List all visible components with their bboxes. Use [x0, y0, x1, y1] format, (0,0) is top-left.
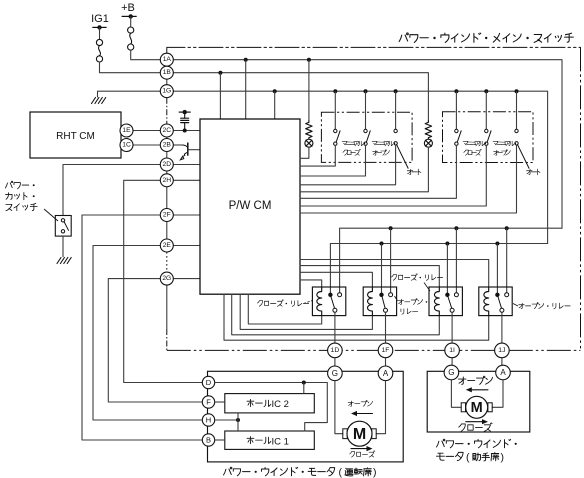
junction 1A-PWCM	[244, 58, 248, 62]
label open relay K4	[519, 303, 525, 308]
junction H	[236, 418, 240, 422]
svg-text:1C: 1C	[122, 142, 131, 149]
sw manual-open 2 lever	[487, 130, 491, 142]
pin 1G	[160, 85, 173, 98]
svg-text:F: F	[206, 398, 211, 407]
boundary 2G to pin row dash	[166, 329, 168, 350]
wire 1G to sw manual-open 2	[485, 91, 487, 129]
wire PWCM to coil1 bottom	[248, 294, 321, 324]
wire PWCM to coil3 bottom	[232, 294, 440, 335]
wire 2G to P/W CM	[173, 278, 200, 280]
wire 2E to P/W CM	[173, 245, 200, 247]
pin B	[202, 434, 214, 446]
ground 1G	[92, 98, 106, 104]
wire sw1-auto ladder	[300, 145, 396, 185]
wire 1G drop to P/W CM	[274, 91, 276, 119]
hall IC 1 box	[225, 431, 314, 449]
label manual close 2	[463, 141, 468, 145]
svg-text:IC 2: IC 2	[272, 399, 289, 410]
wire sw1-close ladder	[300, 145, 335, 166]
close relay K3 lever	[448, 297, 452, 309]
wire 2C to P/W CM	[173, 130, 200, 132]
junction 1G x=365.5	[364, 89, 368, 93]
label manual open 2	[493, 141, 498, 145]
label open direction driver	[348, 401, 353, 406]
pin 1E	[120, 124, 133, 137]
wire NC4 drop	[496, 244, 498, 295]
IG1 terminal tick	[92, 26, 106, 28]
ground power cut switch	[57, 258, 71, 264]
svg-text:1A: 1A	[163, 56, 172, 63]
wire 2H-2F	[166, 187, 168, 209]
close relay K1 common wire to pin	[334, 312, 336, 343]
wire 2E to H	[93, 246, 203, 421]
wire lamp L2 ladder	[300, 147, 428, 192]
arrow open driver	[355, 413, 373, 415]
wire 2F to B	[82, 215, 203, 440]
label hall IC 1	[247, 437, 254, 444]
svg-text:RHT CM: RHT CM	[56, 131, 95, 142]
junction capacitor	[183, 129, 187, 133]
pin D	[202, 376, 214, 388]
open relay K2 common contact	[384, 308, 388, 312]
label auto 1	[407, 169, 413, 174]
P/W CM box	[200, 119, 300, 294]
wire 1G to sw manual-close 1	[334, 91, 336, 129]
wire 2B toward shield	[173, 144, 183, 146]
resistor R2	[425, 121, 431, 139]
pin F	[202, 396, 214, 408]
close relay K3 common wire to pin	[451, 312, 453, 343]
junction D hallIC2	[302, 381, 306, 385]
svg-text:D: D	[206, 378, 212, 387]
svg-text:IC 1: IC 1	[272, 436, 289, 447]
sw manual-close 1 lever	[336, 130, 340, 142]
sw manual-close 1 contacts	[334, 129, 337, 132]
arrow close passenger	[466, 421, 484, 423]
switch group2 boundary box	[443, 112, 534, 163]
wire sw2-open ladder	[300, 145, 486, 206]
pin 1B	[160, 66, 173, 79]
close relay K3 box	[429, 287, 462, 316]
wire 1A to resistor R1	[308, 60, 310, 121]
wire 1E-2C	[133, 130, 160, 132]
boundary below 2G	[166, 285, 168, 329]
wire 2H to D	[124, 180, 203, 382]
label open relay K2	[398, 299, 403, 304]
junction 1G x=274.7	[273, 89, 277, 93]
pin A passenger	[496, 365, 511, 380]
wire 1I to G	[451, 358, 453, 366]
junction NO2	[389, 226, 393, 230]
svg-text:2C: 2C	[163, 127, 172, 134]
wire coil2 feed	[300, 272, 372, 287]
driver motor unit box	[208, 371, 404, 462]
close relay K1 NO contact	[338, 293, 342, 297]
svg-text:1G: 1G	[162, 88, 171, 95]
svg-text:1F: 1F	[382, 347, 390, 354]
wire 1D to G	[334, 358, 336, 366]
svg-text:A: A	[500, 368, 506, 377]
wire IG1 fuse to 1B	[100, 62, 161, 73]
boundary 2E-2G dotted	[166, 252, 168, 272]
+B terminal tick	[122, 15, 137, 17]
wire 1J to A	[501, 358, 503, 366]
wire 1G to sw auto 1	[395, 91, 397, 129]
label power cut switch	[5, 181, 12, 188]
svg-text:M: M	[353, 426, 366, 443]
svg-text:1D: 1D	[331, 347, 340, 354]
pin 2H	[160, 174, 173, 187]
open relay K4 coil	[484, 287, 489, 316]
svg-text:M: M	[471, 400, 483, 416]
wire A to motor	[376, 381, 385, 434]
resistor R1	[306, 121, 312, 139]
wire sw2-auto ladder	[300, 145, 517, 213]
wire A to motor passenger	[492, 380, 503, 408]
open relay K2 NC contact	[379, 293, 383, 297]
close relay K3 common contact	[450, 308, 454, 312]
arrow close driver	[351, 448, 369, 450]
junction 1G x=516.5	[515, 89, 519, 93]
close relay K3 NC contact	[445, 293, 449, 297]
open relay K4 lever	[498, 297, 502, 309]
pin 1I	[445, 343, 460, 358]
wire bus 1A to relay NO contacts	[340, 228, 562, 295]
svg-text:H: H	[206, 416, 211, 425]
wire G to motor	[335, 381, 343, 434]
svg-text:1E: 1E	[122, 127, 131, 134]
wire 2G to F	[108, 279, 202, 402]
power cut switch contacts	[61, 219, 64, 222]
motor M1	[347, 421, 372, 446]
wire NO4 drop	[506, 228, 508, 294]
pin 1C	[120, 139, 133, 152]
pin 1D	[328, 343, 343, 358]
sw manual-close 2 lever	[457, 130, 461, 142]
close relay K3 coil	[434, 287, 439, 316]
svg-text:G: G	[332, 369, 338, 378]
wire D drop to hall IC2	[303, 383, 305, 394]
sw manual-open 1 lever	[366, 130, 370, 142]
wire F to hall IC2	[215, 401, 225, 403]
label close direction driver	[350, 452, 355, 458]
pin 2E	[160, 239, 173, 252]
wire 2B-2D	[166, 152, 168, 159]
wire 1A bus	[173, 60, 562, 229]
wire hallIC2-hallIC1 via H	[237, 413, 239, 431]
wire 2D to power cut switch	[63, 165, 160, 216]
wire H to hall ICs	[215, 419, 238, 421]
label open direction passenger	[458, 377, 466, 384]
wire sw1-open ladder	[300, 145, 366, 176]
svg-text:): )	[501, 451, 505, 463]
label close relay K1	[257, 301, 262, 307]
sw auto 2 lever	[517, 144, 529, 168]
main switch boundary right	[580, 47, 582, 350]
junction 1G x=335.3	[333, 89, 337, 93]
svg-text:A: A	[383, 369, 389, 378]
pin H	[202, 414, 214, 426]
wire lamp L1 to P/W CM	[300, 147, 309, 158]
label manual close 1	[342, 141, 347, 145]
close relay K1 box	[312, 287, 345, 316]
label hall IC 2	[247, 399, 254, 406]
fuse IG1	[96, 39, 102, 45]
wire 1G to sw auto 2	[516, 91, 518, 129]
svg-text:+B: +B	[121, 2, 135, 14]
pin 2C	[160, 124, 173, 137]
junction NC3	[445, 242, 449, 246]
power cut switch box	[55, 216, 71, 237]
sw manual-close 2 contacts	[455, 129, 458, 132]
wire 2H to P/W CM	[173, 179, 200, 181]
wire coil3 feed	[300, 266, 439, 287]
svg-text:2G: 2G	[162, 275, 171, 282]
svg-text:(: (	[339, 466, 343, 478]
svg-text:): )	[373, 466, 377, 478]
wire 2D-2H	[166, 171, 168, 174]
open relay K4 NC contact	[495, 293, 499, 297]
wire 1B bus	[173, 73, 428, 121]
pin 1A	[160, 53, 173, 66]
wire NO2 drop	[390, 228, 392, 295]
svg-text:P/W CM: P/W CM	[229, 200, 272, 212]
capacitor C1	[184, 123, 186, 131]
main switch boundary bottom (through 1D 1F 1I 1J)	[167, 349, 581, 351]
pin G driver	[328, 366, 343, 381]
junction NO4	[505, 226, 509, 230]
label close relay K3	[391, 275, 396, 281]
motor M2 terminals	[461, 403, 465, 412]
sw manual-open 1 contacts	[364, 129, 367, 132]
svg-text:(: (	[466, 451, 470, 463]
svg-text:2E: 2E	[163, 242, 172, 249]
wire PWCM to coil2 bottom	[240, 294, 372, 329]
wire 1G to sw manual-close 2	[455, 91, 457, 129]
sw auto 2 contacts	[515, 129, 518, 132]
label auto 2	[527, 169, 533, 174]
motor M2	[466, 396, 488, 418]
pin 2B	[160, 139, 173, 152]
svg-text:1J: 1J	[498, 347, 505, 354]
pin 1F	[378, 343, 393, 358]
pin G passenger	[444, 365, 459, 380]
wire NC2 drop	[381, 244, 383, 295]
wire +B fuse to 1A	[131, 50, 161, 60]
sw manual-open 2 contacts	[485, 129, 488, 132]
switch group1 boundary box	[321, 112, 412, 162]
label driver motor	[224, 467, 232, 475]
power cut switch lever	[64, 222, 69, 231]
lamp L2	[424, 139, 432, 147]
wire RHT-1C	[120, 144, 121, 146]
wire G to motor passenger	[451, 380, 461, 408]
sw auto 1 lever	[396, 144, 408, 168]
close relay K1 coil	[317, 287, 322, 316]
wire IG1 down to fuse	[99, 27, 101, 39]
wire B to hall IC1	[215, 439, 225, 441]
svg-text:1B: 1B	[163, 69, 172, 76]
junction NO3	[454, 226, 458, 230]
leader power cut switch	[44, 209, 58, 221]
shield symbol at 2B	[183, 145, 188, 148]
pin 2F	[160, 209, 173, 222]
junction 1G x=486.3	[484, 89, 488, 93]
lamp L1	[305, 139, 313, 147]
boundary 1G-2C dash	[166, 98, 168, 124]
svg-text:2B: 2B	[163, 142, 172, 149]
close relay K1 NC contact	[328, 293, 332, 297]
close relay K1 lever	[331, 297, 335, 309]
hall IC 2 box	[225, 394, 314, 413]
main switch boundary top	[167, 47, 581, 53]
pin 1J	[495, 343, 510, 358]
pin 2D	[160, 158, 173, 171]
open relay K2 NO contact	[389, 293, 393, 297]
wire 2D to P/W CM	[173, 164, 200, 166]
RHT CM box	[30, 112, 121, 158]
wire 1F to A	[385, 358, 387, 366]
wire sw2-close ladder	[300, 145, 456, 198]
svg-text:2H: 2H	[163, 177, 172, 184]
wire coil4 feed	[300, 260, 489, 288]
wire 1B drop to P/W CM	[219, 73, 221, 119]
wire 2F-2E	[166, 222, 168, 240]
junction 1G x=395.6	[394, 89, 398, 93]
open relay K2 box	[363, 287, 396, 316]
svg-text:1I: 1I	[449, 347, 455, 354]
open relay K2 common wire to pin	[385, 312, 387, 343]
wire 1G to sw manual-open 1	[365, 91, 367, 129]
open relay K4 NO contact	[505, 293, 509, 297]
close relay K3 NO contact	[454, 293, 458, 297]
wire D to hall ICs	[215, 383, 327, 432]
wire 2F to P/W CM	[173, 214, 200, 216]
wire bus 1G to relay NC contacts	[330, 244, 547, 295]
open relay K4 common wire to pin	[501, 312, 503, 343]
motor M1 terminals	[343, 429, 348, 439]
wire 1G bus	[173, 91, 547, 243]
open relay K2 lever	[382, 297, 385, 309]
svg-text:2F: 2F	[163, 212, 171, 219]
sw auto 1 contacts	[394, 129, 397, 132]
junction 1A-resistor1	[307, 58, 311, 62]
junction 1G x=456.4	[454, 89, 458, 93]
svg-text:IG1: IG1	[91, 13, 109, 25]
wire 2C-2B	[166, 137, 168, 139]
open relay K4 box	[479, 287, 512, 316]
label power window main switch	[399, 33, 408, 42]
label close direction passenger	[459, 424, 465, 431]
wire power cut switch to ground	[62, 236, 64, 257]
svg-text:G: G	[448, 368, 454, 377]
close relay K1 common contact	[333, 308, 337, 312]
label manual open 1	[372, 141, 377, 145]
open relay K2 coil	[368, 287, 373, 316]
wire 1B-1G	[166, 79, 168, 85]
pin 2G	[160, 272, 173, 285]
wire +B down to fuse	[130, 16, 132, 27]
junction NC2	[380, 242, 384, 246]
svg-text:2D: 2D	[163, 161, 172, 168]
wire 1A drop to P/W CM	[245, 60, 247, 119]
fuse +B	[128, 27, 134, 33]
wire NC3 drop	[446, 244, 448, 295]
wire PWCM to coil4 bottom	[224, 294, 489, 340]
arrow open passenger	[470, 389, 488, 391]
wire RHT-1E	[120, 130, 121, 132]
label passenger motor	[437, 439, 445, 447]
wire coil1 feed	[300, 280, 322, 287]
junction 1B-PWCM	[218, 71, 222, 75]
pin A driver	[378, 366, 393, 381]
wire NO3 drop	[455, 228, 457, 294]
junction NC4	[495, 242, 499, 246]
svg-text:B: B	[206, 436, 211, 445]
wire 1G to ground	[98, 91, 161, 97]
open relay K4 common contact	[500, 308, 504, 312]
passenger motor unit box	[427, 371, 530, 432]
wire 1C-2B	[133, 144, 160, 146]
